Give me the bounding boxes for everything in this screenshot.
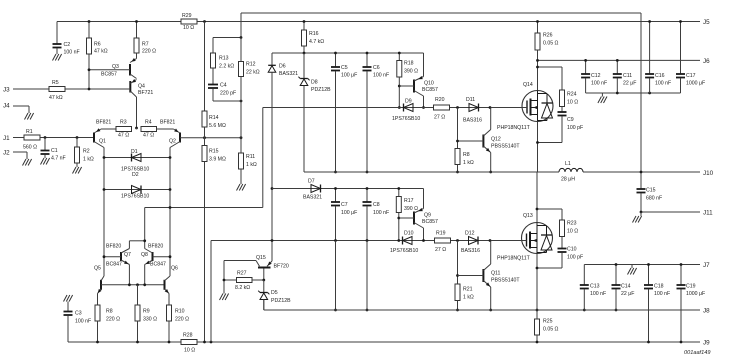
diode D7 BAS321 bbox=[311, 185, 321, 193]
svg-text:27 Ω: 27 Ω bbox=[435, 247, 446, 253]
svg-text:Q6: Q6 bbox=[171, 266, 178, 272]
svg-text:330 Ω: 330 Ω bbox=[143, 317, 157, 323]
svg-text:BC847: BC847 bbox=[150, 262, 166, 268]
svg-text:100 nF: 100 nF bbox=[64, 50, 80, 56]
svg-text:BC857: BC857 bbox=[101, 72, 117, 78]
capacitor C13 bbox=[583, 265, 585, 285]
transistor Q3 BC857 bbox=[129, 64, 131, 76]
svg-text:J4: J4 bbox=[3, 103, 10, 110]
svg-text:R17: R17 bbox=[404, 198, 414, 204]
svg-text:47 kΩ: 47 kΩ bbox=[94, 49, 108, 55]
svg-text:R21: R21 bbox=[463, 287, 473, 293]
wire main positive rail y=21.5 (C2 to R29 to R26) bbox=[57, 21, 538, 23]
svg-text:BAS321: BAS321 bbox=[303, 195, 322, 201]
svg-text:Q12: Q12 bbox=[491, 137, 501, 143]
svg-text:J8: J8 bbox=[703, 308, 710, 315]
resistor R8 1k bbox=[457, 108, 459, 149]
svg-text:100 nF: 100 nF bbox=[373, 73, 389, 79]
transistor Q6 BC847 bbox=[164, 280, 166, 290]
svg-text:3.9 MΩ: 3.9 MΩ bbox=[209, 157, 226, 163]
resistor R9 330ohm bbox=[135, 305, 140, 321]
svg-text:C16: C16 bbox=[655, 73, 665, 79]
svg-text:Q5: Q5 bbox=[94, 266, 101, 272]
resistor R14 bbox=[204, 22, 206, 112]
svg-text:BC847: BC847 bbox=[106, 262, 122, 268]
svg-text:R19: R19 bbox=[436, 231, 446, 237]
svg-text:BC857: BC857 bbox=[422, 219, 438, 225]
svg-text:C10: C10 bbox=[567, 247, 577, 253]
svg-text:R15: R15 bbox=[209, 149, 219, 155]
svg-text:Q3: Q3 bbox=[112, 64, 119, 70]
resistor R25 0.05ohm bbox=[536, 310, 538, 319]
svg-text:C4: C4 bbox=[220, 83, 227, 89]
svg-text:R1: R1 bbox=[26, 129, 33, 135]
resistor R28 bbox=[181, 340, 197, 345]
svg-text:PBSS5140T: PBSS5140T bbox=[491, 278, 520, 284]
capacitor C5 bbox=[335, 53, 337, 67]
svg-text:1 kΩ: 1 kΩ bbox=[83, 157, 94, 163]
svg-text:28 μH: 28 μH bbox=[561, 177, 575, 183]
wire Q14 source bbox=[537, 122, 539, 173]
svg-text:R13: R13 bbox=[219, 56, 229, 62]
resistor R21 bbox=[457, 241, 459, 285]
svg-text:220 Ω: 220 Ω bbox=[106, 317, 120, 323]
snubber R23 bbox=[537, 208, 562, 210]
svg-text:C7: C7 bbox=[341, 202, 348, 208]
wire to J11 bbox=[641, 211, 700, 213]
svg-text:BC857: BC857 bbox=[422, 87, 438, 93]
capacitor C8 bbox=[366, 189, 368, 202]
svg-text:J3: J3 bbox=[3, 87, 10, 94]
snubber capacitor C10 bbox=[561, 237, 563, 249]
svg-text:100 nF: 100 nF bbox=[75, 319, 91, 325]
svg-text:BAS321: BAS321 bbox=[279, 71, 298, 77]
svg-text:10 Ω: 10 Ω bbox=[567, 229, 578, 235]
svg-text:1PS76SB10: 1PS76SB10 bbox=[121, 194, 149, 200]
wire high-side floating rail y=53 bbox=[272, 52, 424, 54]
resistor R20 bbox=[434, 105, 450, 110]
svg-text:C9: C9 bbox=[567, 117, 574, 123]
svg-text:R26: R26 bbox=[543, 33, 553, 39]
svg-text:R12: R12 bbox=[246, 62, 256, 68]
svg-text:0.05 Ω: 0.05 Ω bbox=[543, 41, 559, 47]
svg-text:D1: D1 bbox=[131, 149, 138, 155]
svg-text:390 Ω: 390 Ω bbox=[404, 206, 418, 212]
capacitor C12 bbox=[585, 60, 587, 73]
svg-text:R8: R8 bbox=[463, 152, 470, 158]
svg-text:4.7 kΩ: 4.7 kΩ bbox=[309, 39, 324, 45]
svg-text:100 nF: 100 nF bbox=[654, 291, 670, 297]
transistor Q12 PBSS5140T bbox=[482, 135, 484, 148]
svg-text:D5: D5 bbox=[271, 290, 278, 296]
diode D9 1PS76SB10 bbox=[404, 104, 414, 112]
svg-text:R8: R8 bbox=[106, 309, 113, 315]
resistor R10 220ohm bbox=[167, 305, 172, 321]
transistor Q5 BC847 bbox=[100, 280, 102, 290]
svg-text:1 kΩ: 1 kΩ bbox=[463, 295, 474, 301]
transistor Q4 BF721 bbox=[129, 81, 131, 93]
wire Q13 drain bbox=[536, 172, 538, 223]
wire J7 line y=264.5 bbox=[584, 264, 700, 266]
svg-text:R11: R11 bbox=[246, 154, 255, 160]
ground under C2 bbox=[53, 54, 57, 61]
resistor R18 bbox=[398, 53, 400, 61]
svg-text:R3: R3 bbox=[120, 120, 127, 126]
svg-text:R24: R24 bbox=[567, 92, 577, 98]
resistor R12 bbox=[239, 62, 244, 77]
svg-text:100 μF: 100 μF bbox=[341, 210, 357, 216]
capacitor C4 bbox=[212, 68, 214, 84]
svg-text:100 nF: 100 nF bbox=[655, 81, 671, 87]
svg-text:Q13: Q13 bbox=[523, 213, 533, 219]
svg-text:27 Ω: 27 Ω bbox=[434, 115, 445, 121]
svg-text:R25: R25 bbox=[543, 319, 553, 325]
resistor R11 bbox=[239, 153, 244, 169]
resistor R2 bbox=[76, 138, 78, 148]
svg-text:D6: D6 bbox=[279, 64, 286, 70]
svg-text:C14: C14 bbox=[621, 284, 631, 290]
ground under R11 bbox=[237, 184, 241, 191]
svg-text:680 nF: 680 nF bbox=[646, 196, 662, 202]
svg-text:D10: D10 bbox=[404, 231, 414, 237]
svg-text:R5: R5 bbox=[52, 80, 59, 86]
svg-text:R6: R6 bbox=[94, 42, 101, 48]
svg-text:R14: R14 bbox=[209, 115, 219, 121]
diode D1 1PS76SB10 bbox=[104, 157, 170, 159]
svg-text:100 pF: 100 pF bbox=[567, 255, 583, 261]
diode D2 1PS76SB10 bbox=[104, 189, 170, 191]
wire C7/C8 return verticals to J8 rail bbox=[335, 241, 337, 311]
svg-text:47 kΩ: 47 kΩ bbox=[49, 95, 63, 101]
svg-text:C3: C3 bbox=[75, 311, 82, 317]
svg-text:47 Ω: 47 Ω bbox=[143, 133, 154, 139]
svg-text:C5: C5 bbox=[341, 65, 348, 71]
svg-text:1 kΩ: 1 kΩ bbox=[463, 160, 474, 166]
transistor Q15 BF720 bbox=[224, 260, 256, 262]
svg-text:560 Ω: 560 Ω bbox=[23, 145, 37, 151]
zener diode D8 PDZ12B bbox=[303, 53, 305, 79]
svg-text:22 μF: 22 μF bbox=[621, 291, 634, 297]
zener diode D5 PDZ12B bbox=[263, 280, 265, 293]
svg-text:R4: R4 bbox=[145, 120, 152, 126]
transistor Q8 BF820 bbox=[152, 252, 154, 261]
diode D12 BAS316 bbox=[469, 237, 479, 245]
ground above C3 bbox=[64, 295, 68, 302]
svg-text:C12: C12 bbox=[591, 73, 601, 79]
resistor R26 0.05ohm bbox=[537, 22, 539, 34]
capacitor C19 bbox=[680, 265, 682, 285]
capacitor C14 bbox=[615, 265, 617, 285]
capacitor C15 bbox=[637, 188, 646, 190]
svg-text:10 Ω: 10 Ω bbox=[183, 25, 194, 31]
transistor Q2 BF821 bbox=[179, 133, 181, 143]
svg-text:1 kΩ: 1 kΩ bbox=[246, 162, 257, 168]
resistor R16 bbox=[303, 22, 305, 31]
svg-text:J2: J2 bbox=[3, 150, 10, 157]
svg-text:BAS316: BAS316 bbox=[463, 118, 482, 124]
svg-text:R27: R27 bbox=[237, 271, 247, 277]
svg-text:D8: D8 bbox=[311, 80, 318, 86]
wire decoupling ground line y=93 bbox=[586, 92, 681, 94]
svg-text:1000 μF: 1000 μF bbox=[686, 291, 705, 297]
power MOSFET Q13 PHP18NQ11T bbox=[522, 223, 553, 254]
svg-text:J9: J9 bbox=[703, 340, 710, 347]
svg-text:J10: J10 bbox=[703, 170, 714, 177]
svg-text:Q11: Q11 bbox=[491, 271, 501, 277]
ground at J7 bbox=[628, 268, 632, 275]
svg-text:220 Ω: 220 Ω bbox=[175, 317, 189, 323]
resistor R3 bbox=[116, 127, 132, 132]
svg-text:C18: C18 bbox=[654, 284, 664, 290]
svg-text:D2: D2 bbox=[132, 172, 139, 178]
ground at C12/C11 bbox=[598, 97, 602, 104]
resistor R29 bbox=[181, 19, 197, 24]
wire feedback vertical x=640.8 bbox=[640, 13, 642, 189]
svg-text:1PS76SB10: 1PS76SB10 bbox=[392, 116, 420, 122]
svg-text:Q9: Q9 bbox=[424, 213, 431, 219]
svg-text:22 μF: 22 μF bbox=[623, 81, 636, 87]
svg-text:Q15: Q15 bbox=[256, 255, 266, 261]
wire phase/output rail y=172 bbox=[304, 171, 559, 173]
svg-text:C17: C17 bbox=[686, 73, 696, 79]
wire feedback top rail y=13 bbox=[241, 12, 641, 14]
svg-text:BF820: BF820 bbox=[148, 244, 163, 250]
wire Q13 source bbox=[536, 254, 538, 311]
resistor R27 bbox=[224, 279, 237, 281]
svg-text:C11: C11 bbox=[623, 73, 632, 79]
transistor Q10 BC857 bbox=[413, 80, 415, 93]
diode D11 BAS316 bbox=[469, 104, 479, 112]
wire Q14 drain bbox=[537, 60, 539, 90]
svg-text:R7: R7 bbox=[142, 42, 149, 48]
inductor L1 bbox=[559, 168, 583, 172]
transistor Q9 BC857 bbox=[413, 212, 415, 225]
svg-text:4.7 nF: 4.7 nF bbox=[51, 156, 66, 162]
ground under C15 bbox=[633, 216, 637, 223]
svg-text:5.6 MΩ: 5.6 MΩ bbox=[209, 123, 226, 129]
svg-text:D7: D7 bbox=[308, 179, 315, 185]
svg-text:BF720: BF720 bbox=[274, 263, 289, 269]
svg-text:PDZ12B: PDZ12B bbox=[311, 87, 331, 93]
ground at R27 bbox=[220, 294, 224, 301]
capacitor C16 bbox=[649, 22, 651, 74]
svg-text:220 pF: 220 pF bbox=[220, 91, 236, 97]
ground at J4 bbox=[25, 113, 29, 120]
resistor R15 bbox=[202, 146, 207, 162]
svg-text:L1: L1 bbox=[565, 161, 571, 167]
ground under C1 bbox=[41, 158, 45, 165]
power MOSFET Q14 PHP18NQ11T bbox=[522, 91, 553, 122]
diode D6 BAS321 bbox=[271, 53, 273, 65]
wire Q5-Q6 base bus bbox=[101, 284, 165, 286]
svg-text:1000 μF: 1000 μF bbox=[686, 81, 705, 87]
svg-text:R20: R20 bbox=[435, 97, 445, 103]
svg-text:J7: J7 bbox=[703, 262, 710, 269]
svg-text:100 pF: 100 pF bbox=[567, 125, 583, 131]
svg-text:22 kΩ: 22 kΩ bbox=[246, 70, 260, 76]
capacitor C11 bbox=[616, 60, 618, 73]
capacitor C7 bbox=[335, 189, 337, 202]
svg-text:D11: D11 bbox=[466, 97, 475, 103]
capacitor C6 bbox=[366, 53, 368, 67]
resistor R1 bbox=[24, 135, 40, 140]
svg-text:Q2: Q2 bbox=[169, 139, 176, 145]
svg-text:2.2 kΩ: 2.2 kΩ bbox=[219, 64, 234, 70]
resistor R4 bbox=[141, 127, 157, 132]
svg-text:C15: C15 bbox=[646, 188, 656, 194]
snubber R24 bbox=[538, 66, 563, 68]
svg-text:J5: J5 bbox=[703, 19, 710, 26]
capacitor C17 bbox=[680, 22, 682, 74]
wire J3 input line bbox=[13, 88, 130, 90]
svg-text:J1: J1 bbox=[3, 135, 10, 142]
snubber capacitor C9 bbox=[561, 107, 563, 112]
wire high-side drive line y=207.5 bbox=[145, 207, 263, 209]
svg-text:BF721: BF721 bbox=[138, 90, 153, 96]
svg-text:R9: R9 bbox=[143, 309, 150, 315]
svg-text:C13: C13 bbox=[590, 284, 600, 290]
svg-text:BAS316: BAS316 bbox=[461, 248, 480, 254]
svg-text:Q8: Q8 bbox=[141, 252, 148, 258]
resistor R17 bbox=[398, 189, 400, 197]
svg-text:47 Ω: 47 Ω bbox=[118, 133, 129, 139]
svg-text:100 nF: 100 nF bbox=[590, 291, 606, 297]
svg-text:PBSS5140T: PBSS5140T bbox=[491, 144, 520, 150]
wire R12 top vertical bbox=[240, 13, 242, 38]
svg-text:Q7: Q7 bbox=[124, 252, 131, 258]
svg-text:J11: J11 bbox=[703, 210, 713, 217]
svg-text:Q1: Q1 bbox=[99, 139, 106, 145]
svg-text:100 nF: 100 nF bbox=[591, 81, 607, 87]
svg-text:R16: R16 bbox=[309, 31, 319, 37]
transistor Q11 PBSS5140T bbox=[482, 269, 484, 282]
resistor R7 bbox=[136, 22, 138, 39]
svg-text:100 nF: 100 nF bbox=[373, 210, 389, 216]
svg-text:BF821: BF821 bbox=[160, 120, 175, 126]
svg-text:100 μF: 100 μF bbox=[341, 73, 357, 79]
wire J6 sense line y=60.4 bbox=[538, 59, 701, 61]
svg-text:BF821: BF821 bbox=[96, 120, 111, 126]
resistor R8 220ohm bbox=[95, 305, 100, 321]
svg-text:R2: R2 bbox=[83, 149, 90, 155]
resistor R5 bbox=[49, 87, 65, 92]
wire J8 rail y=310 bbox=[264, 309, 700, 311]
ground at J2 bbox=[23, 159, 27, 166]
svg-text:PDZ12B: PDZ12B bbox=[271, 298, 291, 304]
svg-text:C2: C2 bbox=[64, 42, 71, 48]
svg-text:1PS76SB10: 1PS76SB10 bbox=[390, 248, 418, 254]
svg-text:C19: C19 bbox=[686, 284, 696, 290]
svg-text:220 Ω: 220 Ω bbox=[142, 49, 156, 55]
resistor R6 bbox=[88, 22, 90, 39]
wire positive rail to J5 bbox=[538, 21, 700, 23]
transistor Q1 BF821 bbox=[93, 133, 95, 143]
transistor Q7 BF820 bbox=[120, 252, 122, 261]
svg-text:Q4: Q4 bbox=[138, 84, 145, 90]
wire bottom rail to J9 bbox=[197, 341, 700, 343]
svg-text:R18: R18 bbox=[404, 61, 414, 67]
svg-text:Q10: Q10 bbox=[424, 81, 434, 87]
svg-text:R29: R29 bbox=[182, 13, 192, 19]
svg-text:D9: D9 bbox=[405, 99, 412, 105]
wire driver supply bus y=240.5 bbox=[211, 240, 491, 242]
svg-text:Q14: Q14 bbox=[523, 82, 533, 88]
svg-text:001aaf149: 001aaf149 bbox=[684, 350, 710, 356]
svg-text:BF820: BF820 bbox=[106, 244, 121, 250]
svg-text:R10: R10 bbox=[175, 309, 185, 315]
svg-text:0.05 Ω: 0.05 Ω bbox=[543, 327, 559, 333]
ground under R2 bbox=[73, 167, 77, 174]
svg-text:R28: R28 bbox=[183, 333, 193, 339]
capacitor C2 bbox=[56, 22, 58, 44]
wire high-side gate line y=107.5 bbox=[263, 107, 491, 109]
wire input node to Q1 base bbox=[40, 137, 94, 139]
svg-text:J6: J6 bbox=[703, 58, 710, 65]
svg-text:D12: D12 bbox=[465, 231, 475, 237]
diode D10 1PS76SB10 bbox=[403, 237, 413, 245]
svg-text:C8: C8 bbox=[373, 202, 380, 208]
svg-text:C1: C1 bbox=[51, 148, 58, 154]
svg-text:10 Ω: 10 Ω bbox=[184, 348, 195, 354]
svg-text:C6: C6 bbox=[373, 65, 380, 71]
svg-text:PHP18NQ11T: PHP18NQ11T bbox=[497, 125, 531, 131]
svg-text:10 Ω: 10 Ω bbox=[567, 100, 578, 106]
wire low-side supply line y=188.5 (D7 line) bbox=[272, 188, 424, 190]
resistor R19 bbox=[435, 238, 451, 243]
svg-text:390 Ω: 390 Ω bbox=[404, 69, 418, 75]
resistor R13 bbox=[212, 38, 214, 54]
wire bottom ground rail left bbox=[68, 341, 181, 343]
capacitor C18 bbox=[648, 265, 650, 285]
svg-text:8.2 kΩ: 8.2 kΩ bbox=[235, 285, 250, 291]
svg-text:PHP18NQ11T: PHP18NQ11T bbox=[497, 256, 531, 262]
capacitor C1 bbox=[44, 138, 46, 151]
svg-text:R23: R23 bbox=[567, 221, 577, 227]
